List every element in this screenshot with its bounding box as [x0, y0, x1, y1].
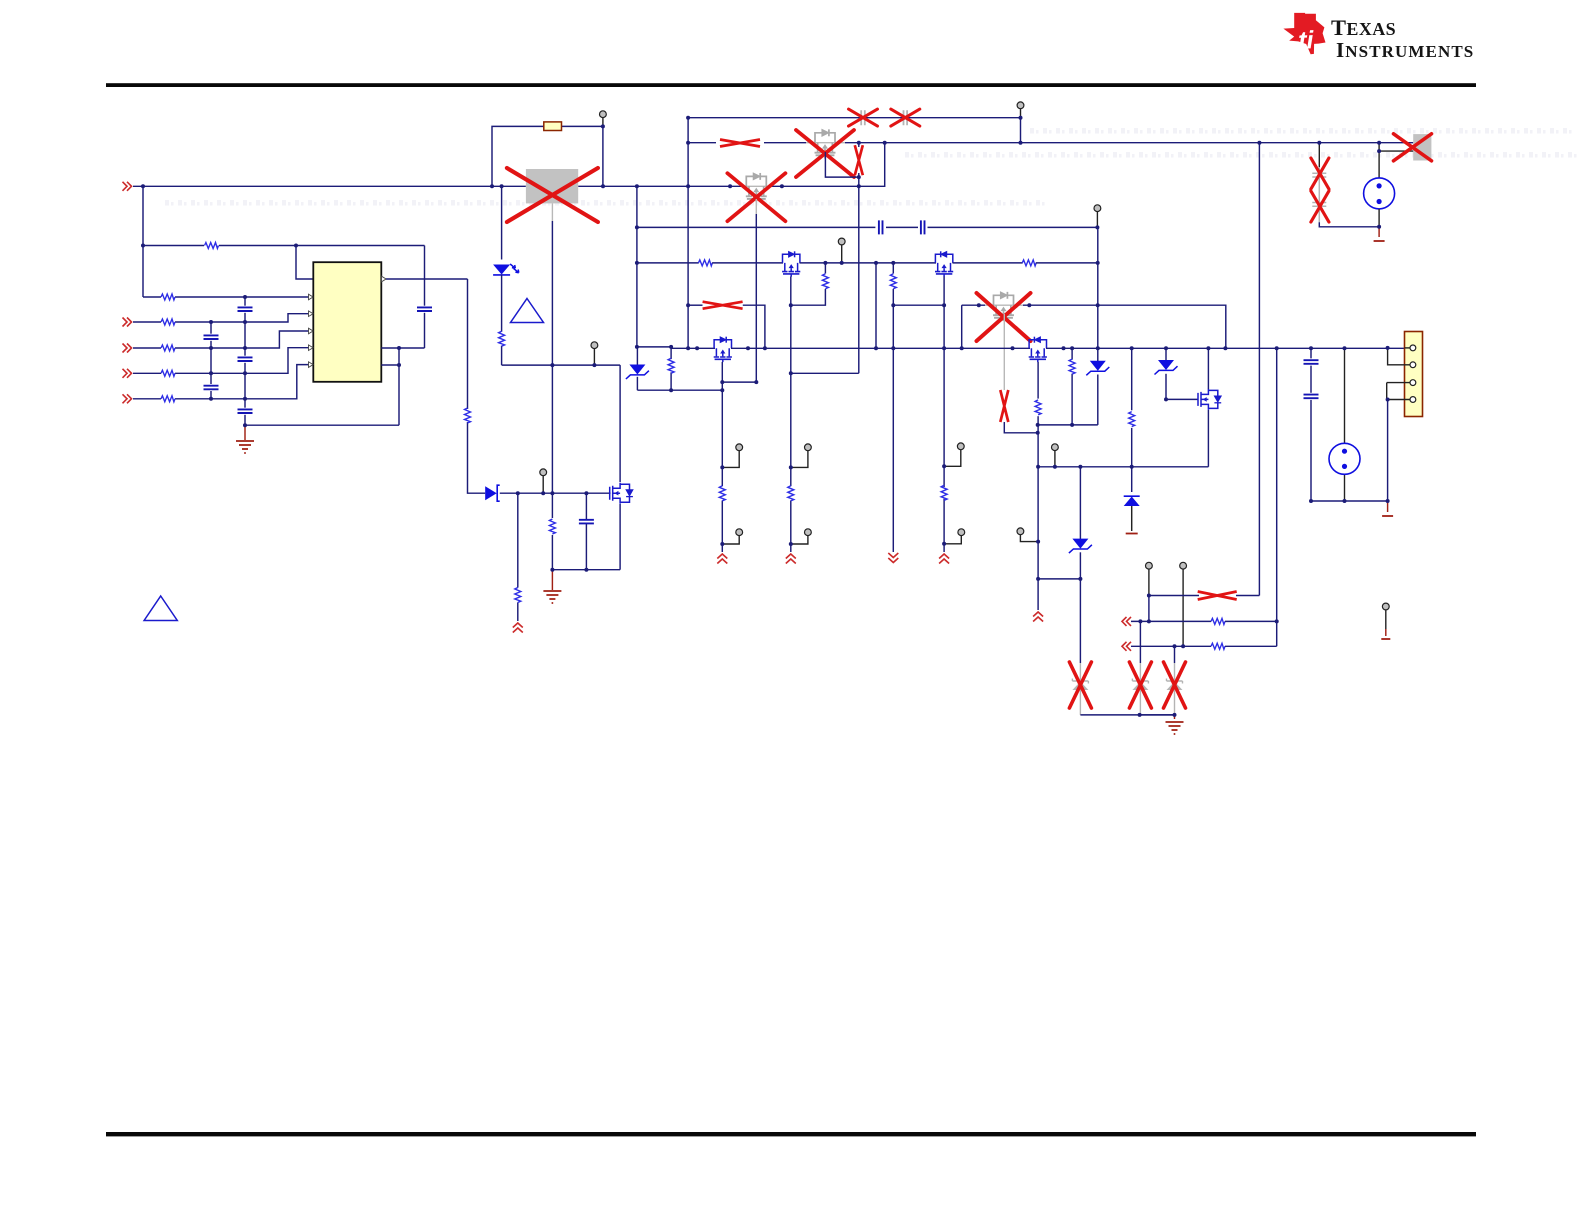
svg-text:TEXAS: TEXAS: [1331, 15, 1396, 40]
svg-text:ti: ti: [1298, 26, 1315, 55]
svg-text:INSTRUMENTS: INSTRUMENTS: [1336, 38, 1474, 62]
